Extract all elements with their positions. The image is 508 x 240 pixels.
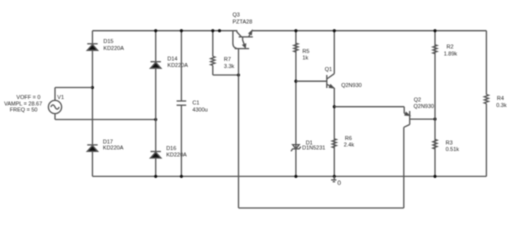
node junction R5 leg top on rail [294,29,297,32]
wire V1 bottom lead [54,114,56,120]
transistor Q2 emitter lead diagonal [404,112,406,115]
node junction D16 leg bottom [154,175,157,178]
resistor R5 [294,43,298,52]
node junction R2 top on rail [433,29,436,32]
resistor R3 [433,139,437,149]
node junction D1 leg bottom on bus [294,175,297,178]
svg-text:0: 0 [337,180,341,187]
wire left leg D15/D17 branch [91,31,93,177]
node junction C1 leg bottom [180,175,183,178]
wire Q1 emitter R6 leg [333,88,335,176]
wire V1 top lead [54,88,56,101]
svg-text:V1: V1 [57,95,64,101]
svg-text:0.3k: 0.3k [496,103,507,109]
resistor R6 [332,139,336,148]
wire top rail left segment [92,30,237,32]
wire V1 plus to left leg [55,87,92,89]
diode D16 [151,152,161,159]
svg-text:0.51k: 0.51k [446,147,460,153]
transistor Q3 internal emitter lead [243,37,245,47]
transistor Q3 base bar second [235,48,249,50]
node junction on rail [218,29,221,32]
wire detour right vertical to Q2 emitter [403,127,405,208]
svg-text:Q2N930: Q2N930 [414,104,435,110]
svg-text:R4: R4 [497,96,504,102]
svg-text:D17: D17 [103,139,113,145]
svg-text:Q2: Q2 [414,97,421,103]
transistor Q2 collector lead [404,125,410,128]
node junction R7 top on rail [211,29,214,32]
ground bar upper [331,179,336,181]
transistor Q2 base bar [409,111,411,125]
resistor R7 [211,56,215,65]
node junction R7 to Q3 base leg [237,73,240,76]
svg-text:1.89k: 1.89k [444,51,458,57]
svg-text:PZTA28: PZTA28 [233,20,253,26]
svg-text:D14: D14 [167,57,177,63]
source V1 circle [48,100,61,113]
node junction Q2 base on R2/R3 leg [433,118,436,121]
node junction R5 leg to Q1 base wire [294,80,297,83]
diode D1 zener triangle [293,145,300,149]
node junction V1 plus to left leg [91,86,94,89]
resistor R2 [433,45,437,54]
transistor Q2 emitter lead bend [403,107,405,114]
node junction D14 leg top [154,29,157,32]
capacitor C1 [177,101,187,105]
svg-text:Q2N930: Q2N930 [341,83,362,89]
transistor Q1 base bar [326,75,328,88]
svg-text:Q1: Q1 [325,67,332,73]
transistor Q3 collector lead outer [233,31,237,49]
svg-text:D1N5231: D1N5231 [302,146,325,152]
svg-text:KD220A: KD220A [103,46,124,52]
wire right leg lower [485,104,487,177]
wire second leg D14/D16 branch [155,31,157,177]
svg-text:Q3: Q3 [233,13,240,19]
wire top rail right segment [252,30,487,32]
ground bar lower [333,181,335,183]
svg-text:FREQ = 50: FREQ = 50 [10,107,38,113]
wire bottom bus [92,175,486,177]
node junction V1 minus on D14/D16 leg [154,118,157,121]
svg-text:D16: D16 [166,146,176,152]
transistor Q1 emitter lead [327,84,335,88]
svg-text:D15: D15 [103,39,113,45]
diode D14 [151,62,161,68]
node junction R3 bottom on bus [433,175,436,178]
wire detour bottom horizontal [239,207,404,209]
wire R5 leg to Q1 base [296,80,327,82]
transistor Q1 collector lead [327,74,335,79]
diode D1 zener cathode bar [291,147,301,152]
svg-text:KD220A: KD220A [166,153,187,159]
transistor Q3 internal emitter arrow [243,44,246,47]
svg-text:KD220A: KD220A [103,146,124,152]
wire R5/D1 leg [295,31,297,177]
svg-text:R6: R6 [345,136,352,142]
wire C1 leg lower [180,105,182,176]
svg-text:4300u: 4300u [192,108,207,114]
source V1 sine symbol [51,105,59,109]
wire Q1 emitter to Q2 emitter lead [334,106,404,108]
svg-text:2.4k: 2.4k [344,142,355,148]
svg-text:KD220A: KD220A [167,63,188,69]
node junction Q1 collector on rail [333,29,336,32]
node junction Q1 emitter to Q2 wire [333,105,336,108]
svg-text:R7: R7 [224,57,231,63]
wire R7 bottom lead [212,65,214,75]
svg-text:R2: R2 [447,45,454,51]
svg-text:VAMPL = 28.67: VAMPL = 28.67 [4,101,42,107]
svg-text:3.3k: 3.3k [224,64,235,70]
node junction ground on bus [333,175,336,178]
wire V1 minus to D14/D16 leg [55,119,156,121]
transistor Q3 base bar first [239,36,253,38]
diode D15 [87,44,97,51]
wire Q1 collector to rail [333,31,335,74]
svg-text:1k: 1k [302,56,308,62]
wire Q2 base to R2/R3 leg [410,118,435,120]
resistor R4 [484,95,488,104]
wire R7 to Q3 base leg [213,74,239,76]
wire C1 leg upper [180,31,182,101]
svg-text:VOFF = 0: VOFF = 0 [16,95,40,101]
transistor Q3 emitter lead [249,32,251,37]
transistor Q3 emitter arrow [249,31,252,35]
transistor Q2 emitter arrow [405,113,409,116]
wire right leg upper [485,31,487,95]
diode D17 [87,145,97,152]
wire R2/R3 leg [434,31,436,177]
node junction C1 leg top [180,29,183,32]
wire Q3 base leg down [238,49,240,208]
ground stub [333,176,335,180]
svg-text:R3: R3 [446,141,453,147]
transistor Q1 emitter arrow [329,85,333,88]
transistor Q3 collector lead inner [237,31,242,37]
svg-text:R5: R5 [302,49,309,55]
svg-text:C1: C1 [192,100,199,106]
wire R7 top lead [212,31,214,57]
